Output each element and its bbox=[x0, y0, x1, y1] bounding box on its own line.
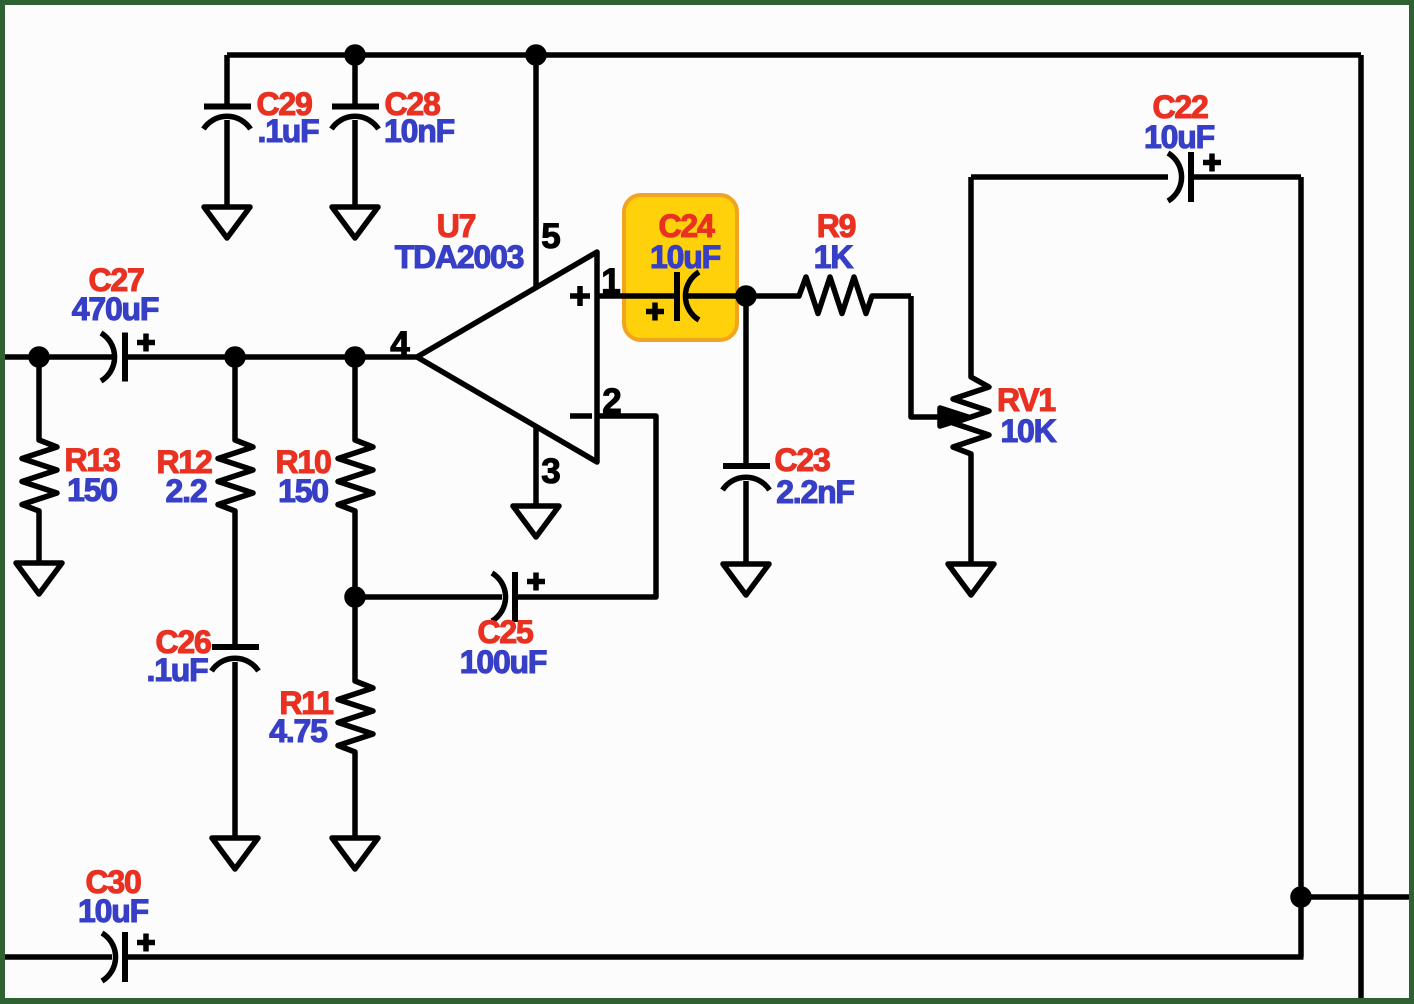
ground C23 bbox=[723, 564, 769, 595]
wire R9 to RV1 wiper bbox=[911, 296, 942, 417]
potentiometer RV1 bbox=[953, 177, 989, 564]
svg-text:10uF: 10uF bbox=[78, 893, 149, 929]
ground R11 bbox=[332, 838, 378, 869]
capacitor C27 bbox=[101, 333, 155, 382]
wiper arrow RV1 bbox=[940, 408, 968, 426]
ground C26 bbox=[212, 838, 258, 869]
ground RV1 bbox=[948, 564, 994, 595]
svg-text:10nF: 10nF bbox=[384, 113, 455, 149]
svg-text:10uF: 10uF bbox=[1144, 119, 1215, 155]
ground R13 bbox=[16, 563, 62, 594]
svg-text:.1uF: .1uF bbox=[147, 652, 209, 688]
svg-text:.1uF: .1uF bbox=[258, 113, 320, 149]
wire bottom rail bbox=[5, 954, 1304, 960]
svg-text:2: 2 bbox=[602, 382, 621, 421]
op-amp U7 bbox=[417, 252, 597, 462]
wire C22 branch bbox=[971, 174, 1301, 180]
capacitor C30 bbox=[102, 932, 155, 982]
svg-text:470uF: 470uF bbox=[72, 291, 159, 327]
svg-text:3: 3 bbox=[541, 452, 560, 491]
svg-text:1: 1 bbox=[601, 262, 620, 301]
svg-text:4: 4 bbox=[390, 325, 410, 364]
capacitor C28 bbox=[332, 55, 380, 207]
capacitor C23 bbox=[723, 296, 771, 564]
wire right inner vertical bbox=[1298, 177, 1304, 957]
junction dot input R13 bbox=[31, 349, 47, 365]
capacitor C22 bbox=[1168, 152, 1221, 202]
capacitor C25 bbox=[492, 572, 545, 622]
wire pin 3 bbox=[533, 426, 539, 506]
resistor R13 bbox=[22, 357, 57, 563]
ground C28 bbox=[332, 207, 378, 238]
junction dot pin 5 tap bbox=[528, 47, 544, 63]
svg-text:2.2: 2.2 bbox=[166, 473, 207, 509]
capacitor C29 bbox=[204, 55, 252, 207]
junction dot input R10 bbox=[347, 349, 363, 365]
wire input rail bbox=[5, 354, 417, 360]
svg-text:10uF: 10uF bbox=[650, 239, 721, 275]
svg-text:10K: 10K bbox=[1000, 413, 1056, 449]
wire output stub to right edge bbox=[1301, 894, 1409, 900]
capacitor C24 bbox=[646, 272, 699, 321]
svg-text:2.2nF: 2.2nF bbox=[776, 474, 854, 510]
capacitor C26 bbox=[212, 647, 260, 838]
junction dot input R12 bbox=[227, 349, 243, 365]
ground pin 3 bbox=[513, 506, 559, 537]
resistor R12 bbox=[218, 357, 253, 645]
junction dot output node bbox=[1293, 889, 1309, 905]
resistor R9 bbox=[746, 277, 911, 314]
wire right outer vertical bbox=[1358, 55, 1364, 998]
junction dot R10 R11 C25 bbox=[347, 589, 363, 605]
svg-text:100uF: 100uF bbox=[460, 644, 547, 680]
svg-text:4.75: 4.75 bbox=[269, 713, 327, 749]
svg-text:1K: 1K bbox=[814, 239, 854, 275]
svg-text:C23: C23 bbox=[774, 442, 830, 478]
wire top rail bbox=[227, 52, 1361, 58]
wire pin 1 bbox=[597, 293, 746, 299]
resistor R11 bbox=[338, 597, 373, 838]
wire pin 2 feedback bbox=[355, 416, 656, 597]
svg-text:TDA2003: TDA2003 bbox=[395, 239, 524, 275]
svg-text:5: 5 bbox=[541, 217, 560, 256]
resistor R10 bbox=[338, 357, 373, 597]
highlight box C24 bbox=[624, 195, 737, 340]
ground C29 bbox=[204, 207, 250, 238]
svg-text:150: 150 bbox=[67, 472, 117, 508]
junction dot C24 R9 C23 bbox=[738, 288, 754, 304]
junction dot C28 tap bbox=[347, 47, 363, 63]
svg-text:150: 150 bbox=[278, 473, 328, 509]
wire pin 5 bbox=[533, 55, 539, 288]
